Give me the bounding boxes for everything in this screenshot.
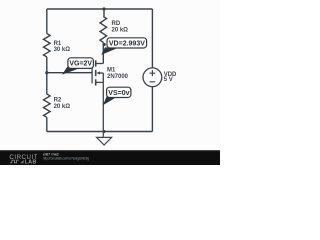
wire R2 to bottom rail	[46, 117, 48, 131]
svg-text:30 kΩ: 30 kΩ	[54, 47, 71, 53]
ground	[97, 132, 112, 146]
resistor R2	[44, 94, 51, 117]
wire R1 to gate node	[46, 57, 48, 94]
resistor RD	[100, 16, 107, 42]
svg-text:20 kΩ: 20 kΩ	[54, 104, 71, 110]
annotation VG=2V	[62, 58, 93, 75]
resistor R1	[44, 34, 51, 57]
annotation VS=0v	[103, 87, 131, 105]
wire gate node to M1 gate	[47, 72, 92, 74]
svg-text:http://circuitlab.com/c/7eskg0: http://circuitlab.com/c/7eskg0zhfz9g	[43, 157, 89, 161]
wire top rail to RD	[103, 9, 105, 16]
svg-text:R1: R1	[54, 41, 62, 47]
svg-text:VD=2.993V: VD=2.993V	[109, 40, 145, 47]
footer bar	[0, 150, 220, 165]
footer logo waveform	[10, 160, 19, 163]
wire RD to M1 drain	[102, 42, 104, 63]
annotation VD=2.993V	[101, 38, 146, 55]
wire top rail	[47, 8, 153, 10]
wire right rail upper (top rail to VDD source)	[151, 9, 153, 68]
wire M1 source to ground node	[102, 82, 104, 131]
node junction dot top rail/RD	[102, 7, 105, 10]
node junction dot drain (VD anchor)	[103, 43, 106, 46]
node junction dot gate	[45, 71, 48, 74]
wire right rail lower (VDD source to bottom rail)	[151, 87, 153, 132]
svg-text:R2: R2	[54, 98, 62, 104]
wire bottom rail	[47, 131, 153, 133]
svg-text:20 kΩ: 20 kΩ	[112, 28, 129, 34]
footer logo LAB	[20, 159, 36, 165]
svg-text:VS=0v: VS=0v	[108, 90, 129, 97]
svg-text:M1: M1	[107, 68, 116, 74]
svg-text:LAB: LAB	[25, 159, 37, 165]
node junction dot source/ground	[102, 130, 105, 133]
wire left rail upper (top rail to R1)	[46, 9, 48, 34]
voltage source VDD	[143, 68, 162, 87]
transistor M1	[92, 60, 103, 85]
svg-text:5 V: 5 V	[164, 77, 173, 83]
svg-text:VG=2V: VG=2V	[69, 61, 92, 68]
svg-text:RD: RD	[112, 21, 121, 27]
svg-text:2N7000: 2N7000	[107, 74, 129, 80]
